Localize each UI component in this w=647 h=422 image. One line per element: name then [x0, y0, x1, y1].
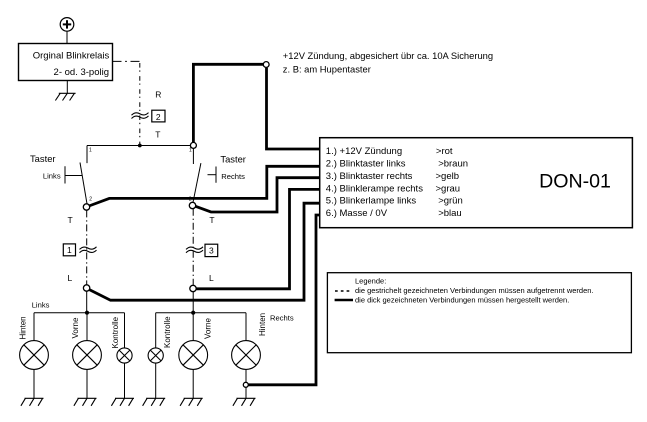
svg-text:5.) Blinkerlampe links: 5.) Blinkerlampe links	[326, 196, 417, 207]
svg-text:Rechts: Rechts	[270, 313, 294, 322]
svg-text:>grün: >grün	[438, 196, 463, 207]
svg-text:>grau: >grau	[436, 183, 461, 194]
svg-text:4.) Blinklerampe rechts: 4.) Blinklerampe rechts	[326, 183, 423, 194]
svg-text:6.) Masse / 0V: 6.) Masse / 0V	[326, 208, 388, 219]
svg-text:T: T	[155, 130, 160, 140]
svg-text:3: 3	[209, 245, 214, 255]
svg-text:Rechts: Rechts	[221, 172, 245, 181]
svg-text:1: 1	[89, 148, 92, 154]
svg-text:Hinten: Hinten	[258, 313, 267, 336]
svg-text:L: L	[68, 273, 73, 283]
svg-text:die dick gezeichneten Verbindu: die dick gezeichneten Verbindungen müsse…	[355, 296, 569, 305]
svg-text:2- od. 3-polig: 2- od. 3-polig	[54, 67, 109, 78]
svg-text:DON-01: DON-01	[539, 171, 611, 193]
svg-text:T: T	[68, 215, 73, 225]
svg-text:1.) +12V Zündung: 1.) +12V Zündung	[326, 146, 402, 157]
svg-text:>rot: >rot	[436, 146, 453, 157]
svg-text:Kontrolle: Kontrolle	[163, 316, 172, 348]
svg-text:Legende:: Legende:	[355, 277, 386, 286]
svg-text:Hinten: Hinten	[18, 316, 27, 339]
svg-text:1: 1	[189, 148, 192, 154]
svg-text:>blau: >blau	[438, 208, 462, 219]
svg-text:L: L	[209, 273, 214, 283]
svg-text:Kontrolle: Kontrolle	[111, 316, 120, 348]
svg-text:>gelb: >gelb	[436, 171, 460, 182]
svg-text:Taster: Taster	[220, 153, 246, 164]
svg-text:Orginal Blinkrelais: Orginal Blinkrelais	[33, 51, 110, 62]
svg-text:z. B: am Hupentaster: z. B: am Hupentaster	[283, 64, 371, 75]
svg-text:die gestrichelt gezeichneten V: die gestrichelt gezeichneten Verbindunge…	[355, 286, 594, 295]
svg-text:>braun: >braun	[438, 159, 468, 170]
svg-text:2: 2	[189, 196, 192, 202]
svg-text:Links: Links	[32, 300, 50, 309]
svg-text:3.) Blinktaster rechts: 3.) Blinktaster rechts	[326, 171, 413, 182]
svg-text:+12V Zündung, abgesichert übr: +12V Zündung, abgesichert übr ca. 10A Si…	[283, 50, 493, 61]
svg-text:Links: Links	[43, 172, 61, 181]
svg-text:T: T	[209, 215, 214, 225]
svg-text:R: R	[155, 90, 161, 100]
svg-text:Vorne: Vorne	[204, 318, 213, 339]
svg-text:Vorne: Vorne	[71, 317, 80, 338]
svg-text:2.) Blinktaster links: 2.) Blinktaster links	[326, 159, 406, 170]
svg-text:2: 2	[156, 112, 161, 122]
svg-text:Taster: Taster	[30, 153, 56, 164]
svg-text:2: 2	[89, 196, 92, 202]
svg-text:1: 1	[67, 245, 72, 255]
